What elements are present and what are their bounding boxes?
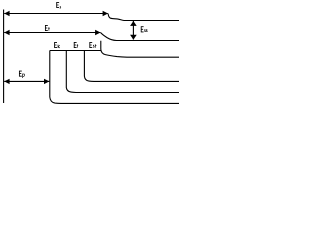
- curve 4 drop v1 to bottom asymptote: [50, 51, 179, 104]
- curve 6 drop v3 to fourth asymptote: [84, 51, 179, 82]
- curve 5 drop v2 to third asymptote: [66, 51, 179, 93]
- label Et: [45, 25, 50, 31]
- dimension arrow Ep shaft: [4, 80, 49, 82]
- curve 3 drop from second asymptote: [101, 41, 179, 57]
- top plateau line of lower curve family: [50, 50, 101, 52]
- arrowhead Ea right: [103, 11, 108, 16]
- arrowhead Ea left: [4, 11, 9, 16]
- dimension arrow Ea shaft: [4, 13, 108, 15]
- label Ea: [56, 2, 60, 8]
- arrowhead Ess up: [130, 21, 137, 26]
- arrowhead Ep right: [44, 79, 49, 84]
- background: [0, 0, 179, 107]
- dimension arrow Et shaft: [4, 32, 100, 34]
- label Ek: [54, 42, 60, 48]
- arrowhead Ep left: [4, 79, 9, 84]
- arrowhead Et right: [95, 30, 100, 35]
- arrowhead Et left: [4, 30, 9, 35]
- curve 1 decay tail to upper asymptote: [108, 14, 179, 21]
- curve 2 decay tail to second asymptote: [101, 33, 180, 41]
- label Est: [89, 42, 96, 48]
- vertical arrow Ess shaft: [132, 21, 134, 40]
- reference line (left vertical datum): [3, 10, 5, 104]
- label Ess: [141, 26, 148, 32]
- label Ep: [19, 71, 25, 78]
- label Et2: [74, 42, 78, 48]
- arrowhead Ess down: [130, 35, 137, 40]
